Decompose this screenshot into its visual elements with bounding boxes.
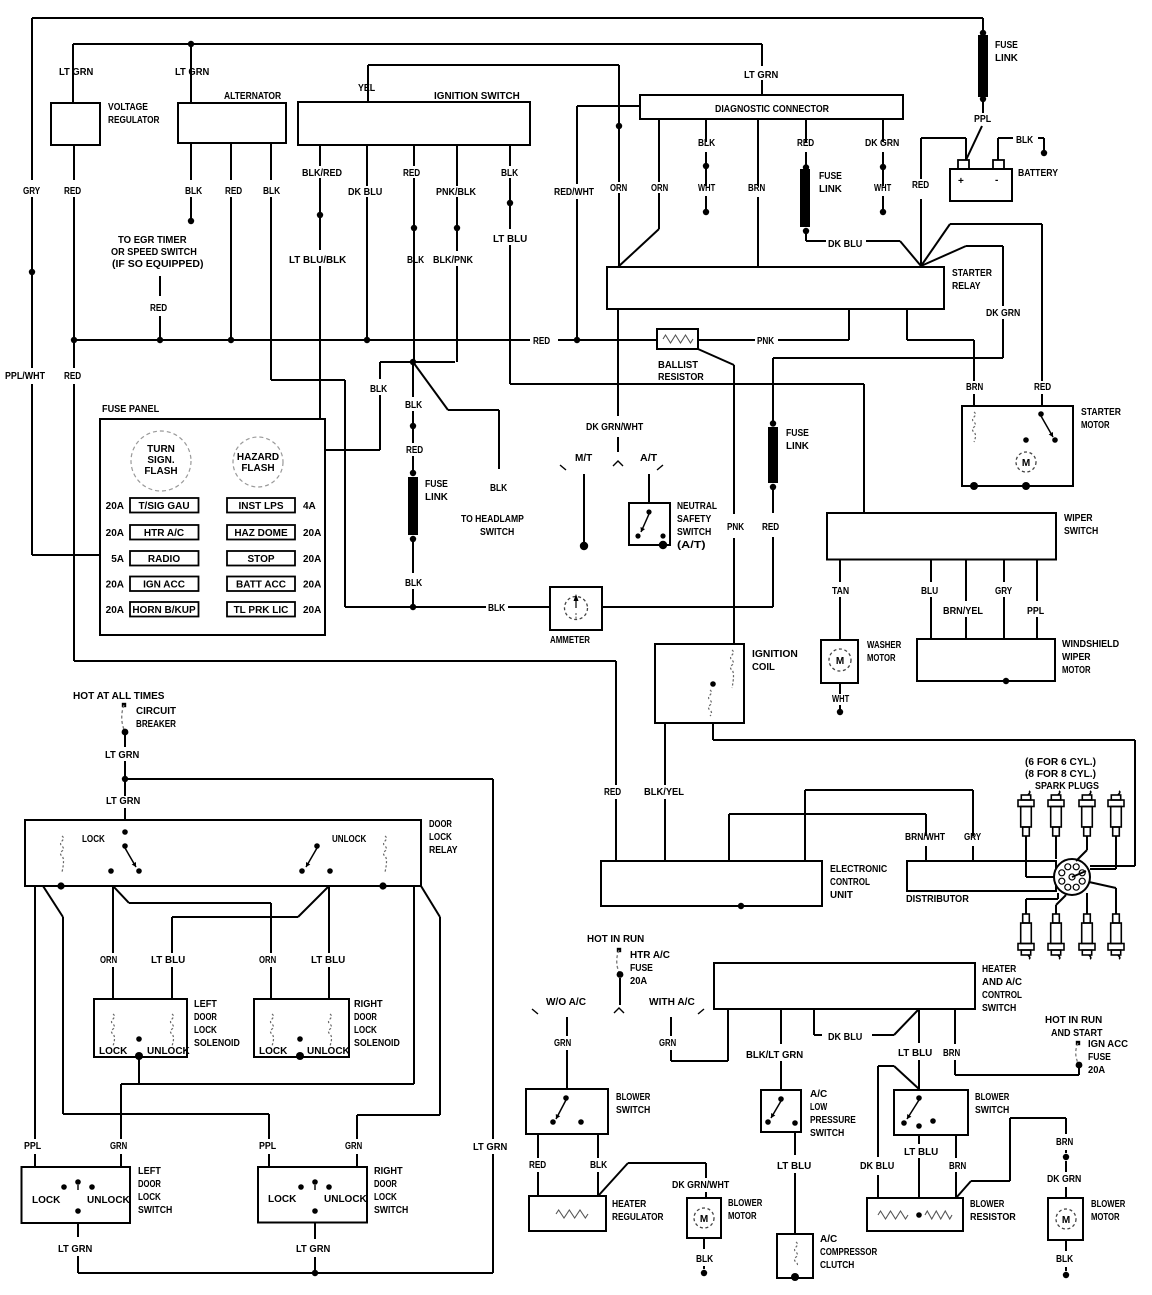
svg-text:CLUTCH: CLUTCH <box>820 1260 854 1271</box>
svg-text:LOCK: LOCK <box>32 1195 61 1206</box>
svg-text:LOCK: LOCK <box>268 1194 297 1205</box>
node LT GRN junction <box>122 776 128 782</box>
svg-text:MOTOR: MOTOR <box>1091 1212 1120 1223</box>
fuse HTR A/C 20A <box>617 948 621 952</box>
fuse TL PRK LIC <box>227 602 295 617</box>
svg-text:SPARK PLUGS: SPARK PLUGS <box>1035 781 1099 792</box>
svg-text:CONTROL: CONTROL <box>982 990 1022 1001</box>
wire DK GRN/WHT to blower motor <box>599 1163 628 1195</box>
svg-text:LOCK: LOCK <box>259 1046 288 1057</box>
svg-text:AND A/C: AND A/C <box>982 977 1022 988</box>
svg-text:PRESSURE: PRESSURE <box>810 1115 856 1126</box>
svg-text:BALLIST: BALLIST <box>658 360 698 371</box>
wire plug7 to cap <box>1086 893 1088 914</box>
wire PNK to ignition coil <box>698 349 734 365</box>
svg-text:BLK: BLK <box>1016 135 1034 146</box>
wire plug2 to cap <box>1055 836 1057 859</box>
svg-text:HOT AT ALL TIMES: HOT AT ALL TIMES <box>73 691 165 702</box>
svg-text:DOOR: DOOR <box>374 1179 397 1190</box>
svg-text:RED: RED <box>225 186 242 197</box>
wire plug4 to cap <box>1115 836 1117 869</box>
svg-text:REGULATOR: REGULATOR <box>612 1212 664 1223</box>
wire BLK/RED - LT BLU/BLK from ignition <box>319 145 321 166</box>
svg-text:M/T: M/T <box>575 453 592 464</box>
wire main RED bus y340 <box>74 339 530 341</box>
svg-text:GRY: GRY <box>23 186 40 197</box>
svg-text:RED: RED <box>150 303 167 314</box>
wire bus ammeter to fuse link F4 <box>602 606 773 608</box>
spark plug bottom x1087 <box>1084 914 1091 923</box>
wire RED fuse link F2 from diagnostic connector <box>805 119 807 142</box>
wire TAN to washer motor <box>839 560 841 583</box>
distributor box <box>907 861 1056 891</box>
svg-text:BLK/YEL: BLK/YEL <box>644 787 684 798</box>
left door lock switch box <box>22 1167 131 1223</box>
svg-text:LT GRN: LT GRN <box>59 67 93 78</box>
spark plug bottom x1056 <box>1053 914 1060 923</box>
wire RED EGR stub <box>159 276 161 296</box>
circuit breaker CB1 <box>122 703 126 707</box>
wire BLK jog to ground bus <box>380 361 413 363</box>
svg-text:T/SIG GAU: T/SIG GAU <box>138 501 189 512</box>
svg-text:WINDSHIELD: WINDSHIELD <box>1062 639 1119 650</box>
spark plug top x1026 <box>1028 791 1030 795</box>
svg-text:4A: 4A <box>303 501 316 512</box>
svg-text:20A: 20A <box>106 580 124 591</box>
node junction LT GRN/alternator <box>188 41 194 47</box>
svg-text:STARTER: STARTER <box>952 268 993 279</box>
svg-text:LOCK: LOCK <box>194 1025 218 1036</box>
svg-text:HAZARD: HAZARD <box>237 452 279 463</box>
svg-text:WHT: WHT <box>874 183 891 194</box>
svg-text:FUSE: FUSE <box>995 40 1018 51</box>
wire coil secondary to distributor cap <box>712 723 714 740</box>
fuse panel box <box>100 419 325 635</box>
svg-text:LT GRN: LT GRN <box>473 1142 507 1153</box>
wire GRY ECU to distributor <box>804 790 806 861</box>
branch caret M/T A/T <box>613 461 623 466</box>
svg-text:RED: RED <box>912 180 929 191</box>
wire BRN to IGN ACC fuse <box>954 1009 956 1044</box>
wire BLK/LT GRN to AC low pressure switch <box>780 1009 782 1044</box>
svg-text:LT BLU: LT BLU <box>904 1147 938 1158</box>
A/C low pressure switch box <box>761 1090 801 1132</box>
wire A/T to neutral safety switch <box>648 474 650 503</box>
svg-text:5A: 5A <box>111 554 124 565</box>
spark plug top x1116 <box>1118 791 1120 795</box>
wire ORN to right solenoid <box>113 886 129 903</box>
wire BLU to wiper motor <box>930 560 932 583</box>
fuse STOP <box>227 551 295 566</box>
blower motor M6 box right <box>1048 1198 1083 1240</box>
spark plug top x1056 <box>1058 791 1060 795</box>
wire LT GRN bus y44 <box>73 43 762 45</box>
svg-text:SOLENOID: SOLENOID <box>354 1038 400 1049</box>
wire DK GRN-WHT stub from diagnostic connector <box>882 119 884 142</box>
svg-text:ORN: ORN <box>610 183 627 194</box>
ignition switch box <box>298 102 530 145</box>
wire DK GRN from relay to middle fuse link <box>921 246 966 266</box>
svg-text:BLK: BLK <box>488 603 506 614</box>
wire RED/WHT from diagnostic connector <box>577 105 640 107</box>
svg-text:LT GRN: LT GRN <box>744 70 778 81</box>
svg-text:MOTOR: MOTOR <box>867 653 896 664</box>
svg-text:BRN/YEL: BRN/YEL <box>943 606 983 617</box>
wire plug6 to cap <box>1055 905 1057 914</box>
svg-text:BLK/RED: BLK/RED <box>302 168 342 179</box>
svg-text:BLOWER: BLOWER <box>970 1199 1005 1210</box>
svg-text:SOLENOID: SOLENOID <box>194 1038 240 1049</box>
svg-text:NEUTRAL: NEUTRAL <box>677 501 717 512</box>
blower switch S5 box left <box>526 1089 608 1134</box>
svg-text:IGNITION SWITCH: IGNITION SWITCH <box>434 91 520 102</box>
svg-text:LT BLU/BLK: LT BLU/BLK <box>289 255 347 266</box>
svg-text:FUSE: FUSE <box>786 428 809 439</box>
svg-text:M: M <box>836 656 844 667</box>
svg-text:BRN: BRN <box>748 183 765 194</box>
ballist resistor R1 <box>657 329 698 349</box>
wire plug3 to cap <box>1086 836 1088 850</box>
svg-text:PPL: PPL <box>974 114 991 125</box>
svg-text:LT BLU: LT BLU <box>151 955 185 966</box>
svg-text:M: M <box>1022 458 1030 469</box>
svg-text:WHT: WHT <box>832 694 849 705</box>
wire LT GRN loop right <box>125 778 493 780</box>
wire GRN WITH A/C to heater control <box>670 1017 672 1036</box>
svg-text:RADIO: RADIO <box>148 554 180 565</box>
svg-text:IGNITION: IGNITION <box>752 649 798 660</box>
svg-text:GRY: GRY <box>995 586 1012 597</box>
blower switch S6 box right <box>894 1090 968 1135</box>
wire LT BLU to compressor clutch <box>794 1132 796 1155</box>
wire RED down to ECU <box>615 661 617 785</box>
svg-text:MOTOR: MOTOR <box>1081 420 1110 431</box>
wire PPL right path from relay <box>43 886 63 917</box>
battery BT1 <box>950 169 1012 201</box>
svg-text:FUSE: FUSE <box>630 963 653 974</box>
svg-text:PNK/BLK: PNK/BLK <box>436 187 477 198</box>
svg-text:RIGHT: RIGHT <box>354 999 383 1010</box>
fuse HTR A/C <box>130 525 199 540</box>
svg-text:HTR A/C: HTR A/C <box>630 950 670 961</box>
wire BRN from diagnostic connector to relay <box>757 119 759 186</box>
svg-text:20A: 20A <box>106 605 124 616</box>
hazard flasher circle <box>233 437 283 487</box>
svg-text:20A: 20A <box>630 976 647 987</box>
svg-text:VOLTAGE: VOLTAGE <box>108 102 148 113</box>
svg-text:20A: 20A <box>106 528 124 539</box>
fuse HAZ DOME <box>227 525 295 540</box>
fuse HORN B/KUP <box>130 602 199 617</box>
wire fuse to W/O-WITH branch <box>619 978 621 1005</box>
svg-text:COIL: COIL <box>752 662 775 673</box>
svg-text:BLK: BLK <box>185 186 203 197</box>
svg-text:MOTOR: MOTOR <box>728 1211 757 1222</box>
svg-text:RIGHT: RIGHT <box>374 1166 403 1177</box>
svg-text:LEFT: LEFT <box>194 999 217 1010</box>
svg-text:BRN/WHT: BRN/WHT <box>905 832 945 843</box>
svg-text:HTR A/C: HTR A/C <box>144 528 184 539</box>
blower resistor R2 box <box>867 1198 963 1231</box>
spark plug bottom x1026 <box>1023 914 1030 923</box>
svg-text:LT GRN: LT GRN <box>106 796 140 807</box>
svg-text:HORN B/KUP: HORN B/KUP <box>132 605 196 616</box>
wire PPL left from relay <box>34 886 36 1139</box>
fuse link F2 <box>800 169 810 227</box>
distributor cap <box>1054 859 1090 895</box>
svg-text:UNLOCK: UNLOCK <box>147 1046 191 1057</box>
svg-text:20A: 20A <box>303 580 321 591</box>
wire RED from ignition switch <box>413 145 415 166</box>
fuse link F1 top right <box>982 18 984 31</box>
svg-text:AND START: AND START <box>1051 1028 1103 1039</box>
svg-text:RED: RED <box>64 186 81 197</box>
right door lock switch box <box>258 1167 367 1223</box>
svg-text:LT BLU: LT BLU <box>311 955 345 966</box>
wire ORN to left solenoid <box>112 886 114 953</box>
wire BLK stub below alternator <box>190 143 192 180</box>
svg-text:SWITCH: SWITCH <box>480 527 514 538</box>
wire DK BLU from fuse link to relay <box>805 233 807 241</box>
wire RED below voltage regulator <box>73 145 75 180</box>
wire plug5 to cap <box>1025 899 1027 914</box>
svg-text:MOTOR: MOTOR <box>1062 665 1091 676</box>
svg-text:LT BLU: LT BLU <box>898 1048 932 1059</box>
svg-text:BLK: BLK <box>1056 1254 1074 1265</box>
svg-text:GRN: GRN <box>554 1038 571 1049</box>
svg-text:LOCK: LOCK <box>429 832 453 843</box>
svg-text:FLASH: FLASH <box>144 466 177 477</box>
svg-text:HOT IN RUN: HOT IN RUN <box>587 934 644 945</box>
diagnostic connector box <box>640 95 903 119</box>
svg-text:PPL: PPL <box>259 1141 276 1152</box>
wire GRN right path from relay corner <box>421 886 440 917</box>
wire GRN W/O A/C to blower switch <box>566 1017 568 1036</box>
svg-text:BRN: BRN <box>1056 1137 1073 1148</box>
svg-text:LT GRN: LT GRN <box>296 1244 330 1255</box>
wire LT BLU to blower switch right <box>918 1009 920 1043</box>
svg-text:UNLOCK: UNLOCK <box>87 1195 131 1206</box>
svg-text:DK GRN: DK GRN <box>1047 1174 1081 1185</box>
starter relay K1 box <box>607 267 944 309</box>
fuse RADIO <box>130 551 199 566</box>
svg-text:FUSE PANEL: FUSE PANEL <box>102 404 159 415</box>
wire LT GRN into alternator <box>190 44 192 103</box>
svg-text:BLK: BLK <box>405 578 423 589</box>
wire M/T stub <box>583 474 585 542</box>
svg-text:20A: 20A <box>303 528 321 539</box>
wire LT GRN into door lock relay <box>124 779 126 796</box>
spark plug bottom x1116 <box>1113 914 1120 923</box>
svg-text:BLK/PNK: BLK/PNK <box>433 255 474 266</box>
wire RED to starter motor <box>921 224 950 266</box>
svg-text:TURN: TURN <box>147 444 175 455</box>
fuse BATT ACC <box>227 577 295 592</box>
fuse INST LPS <box>227 498 295 513</box>
svg-text:DOOR: DOOR <box>194 1012 217 1023</box>
svg-text:SWITCH: SWITCH <box>982 1003 1016 1014</box>
svg-text:LINK: LINK <box>425 492 449 503</box>
svg-text:DOOR: DOOR <box>429 819 452 830</box>
svg-text:UNLOCK: UNLOCK <box>307 1046 351 1057</box>
svg-text:DK GRN/WHT: DK GRN/WHT <box>586 422 643 433</box>
wire plug1 to cap <box>1025 836 1027 877</box>
svg-text:BLOWER: BLOWER <box>616 1092 651 1103</box>
wire RED long left vertical to ECU <box>73 340 75 368</box>
svg-text:A/C: A/C <box>810 1089 827 1100</box>
wire BRN resistor to right blower motor <box>956 1181 971 1198</box>
relay K2 lock contacts <box>122 829 128 835</box>
svg-text:SWITCH: SWITCH <box>616 1105 650 1116</box>
fuse IGN ACC 20A <box>1076 1041 1080 1045</box>
windshield wiper motor M4 box <box>917 639 1055 681</box>
svg-text:GRN: GRN <box>659 1038 676 1049</box>
svg-text:ORN: ORN <box>651 183 668 194</box>
node bus dots <box>71 337 77 343</box>
A/C compressor clutch L1 box <box>777 1234 813 1278</box>
wire BRN/YEL to wiper motor <box>965 560 967 602</box>
wire BLK blower switch down <box>597 1134 599 1158</box>
svg-text:FUSE: FUSE <box>1088 1052 1111 1063</box>
svg-text:FUSE: FUSE <box>425 479 448 490</box>
svg-text:HOT IN RUN: HOT IN RUN <box>1045 1015 1102 1026</box>
svg-text:PPL: PPL <box>1027 606 1044 617</box>
fuse T/SIG GAU <box>130 498 199 513</box>
svg-text:UNLOCK: UNLOCK <box>332 834 367 845</box>
svg-text:LOCK: LOCK <box>99 1046 128 1057</box>
ammeter M1 <box>550 587 602 630</box>
svg-text:LT GRN: LT GRN <box>105 750 139 761</box>
svg-text:BATT ACC: BATT ACC <box>236 580 286 591</box>
svg-text:LINK: LINK <box>819 184 843 195</box>
svg-text:DK GRN: DK GRN <box>986 308 1020 319</box>
svg-text:RED: RED <box>1034 382 1051 393</box>
heater regulator box <box>529 1196 606 1231</box>
svg-text:BLK: BLK <box>590 1160 608 1171</box>
svg-text:BLK: BLK <box>263 186 281 197</box>
svg-text:TL PRK LIC: TL PRK LIC <box>234 605 289 616</box>
svg-text:RED/WHT: RED/WHT <box>554 187 594 198</box>
svg-text:DOOR: DOOR <box>354 1012 377 1023</box>
svg-text:LT GRN: LT GRN <box>175 67 209 78</box>
svg-text:RED: RED <box>529 1160 546 1171</box>
svg-text:ALTERNATOR: ALTERNATOR <box>224 91 282 102</box>
left door lock solenoid box <box>94 999 187 1057</box>
svg-text:RESISTOR: RESISTOR <box>658 372 704 383</box>
svg-text:BLK/LT GRN: BLK/LT GRN <box>746 1050 803 1061</box>
svg-text:SWITCH: SWITCH <box>975 1105 1009 1116</box>
wire relay to GRN left loop <box>413 886 415 1084</box>
wire LT GRN below right switch <box>314 1223 316 1240</box>
wire LT BLU to right solenoid <box>328 886 330 953</box>
wire BLK from battery negative <box>997 138 999 160</box>
svg-text:RELAY: RELAY <box>429 845 458 856</box>
wire LT GRN drop to voltage regulator <box>72 44 74 103</box>
svg-text:SWITCH: SWITCH <box>1064 526 1098 537</box>
wire GRY to wiper motor <box>1003 560 1005 583</box>
svg-text:BATTERY: BATTERY <box>1018 168 1058 179</box>
svg-text:LT BLU: LT BLU <box>777 1161 811 1172</box>
svg-text:BLK: BLK <box>501 168 519 179</box>
svg-text:W/O A/C: W/O A/C <box>546 997 586 1008</box>
wire BLK ground bus to ammeter <box>345 606 486 608</box>
svg-text:LT BLU: LT BLU <box>493 234 527 245</box>
svg-text:BLK: BLK <box>370 384 388 395</box>
svg-text:UNLOCK: UNLOCK <box>324 1194 368 1205</box>
svg-text:TO EGR TIMER: TO EGR TIMER <box>118 235 187 246</box>
fuse IGN ACC <box>130 577 199 592</box>
wire PPL diagonal to battery positive <box>966 126 982 160</box>
svg-text:IGN ACC: IGN ACC <box>143 580 185 591</box>
wire top border bus <box>32 17 983 19</box>
svg-text:STARTER: STARTER <box>1081 407 1122 418</box>
svg-text:WHT: WHT <box>698 183 715 194</box>
wire DK GRN to blower motor right <box>1065 1161 1067 1172</box>
svg-text:M: M <box>1062 1215 1070 1226</box>
svg-text:COMPRESSOR: COMPRESSOR <box>820 1247 878 1258</box>
svg-text:STOP: STOP <box>247 554 274 565</box>
starter motor M2 box <box>962 406 1073 486</box>
wire BRN/WHT ECU to distributor <box>728 814 730 861</box>
svg-text:LOCK: LOCK <box>82 834 106 845</box>
svg-text:20A: 20A <box>106 501 124 512</box>
wire YEL feed <box>367 65 369 102</box>
wire BLK alternator ground path <box>270 143 272 180</box>
wire BLK below blower motor <box>703 1238 705 1249</box>
svg-text:OR SPEED SWITCH: OR SPEED SWITCH <box>111 247 197 258</box>
svg-text:BLOWER: BLOWER <box>728 1198 763 1209</box>
svg-text:BLU: BLU <box>921 586 938 597</box>
wire DK GRN/WHT neutral safety feed <box>617 309 619 416</box>
wire LT GRN to diagnostic connector <box>761 44 763 66</box>
svg-text:BLK: BLK <box>407 255 425 266</box>
fuse link F3 middle-left <box>408 477 418 535</box>
svg-text:RED: RED <box>533 336 550 347</box>
svg-text:BRN: BRN <box>943 1048 960 1059</box>
relay K2 unlock contacts <box>314 843 320 849</box>
wire DK BLU drop to blower resistor <box>894 1066 919 1089</box>
svg-text:RED: RED <box>64 371 81 382</box>
svg-text:(IF SO EQUIPPED): (IF SO EQUIPPED) <box>112 259 204 270</box>
svg-text:PNK: PNK <box>757 336 775 347</box>
svg-text:LINK: LINK <box>786 441 810 452</box>
svg-text:GRY: GRY <box>964 832 981 843</box>
svg-text:ORN: ORN <box>100 955 117 966</box>
svg-text:DOOR: DOOR <box>138 1179 161 1190</box>
washer motor M3 <box>821 640 858 683</box>
relay K2 coils <box>61 836 64 872</box>
svg-text:REGULATOR: REGULATOR <box>108 115 160 126</box>
svg-text:CIRCUIT: CIRCUIT <box>136 706 176 717</box>
svg-text:+: + <box>958 176 964 187</box>
svg-text:SIGN.: SIGN. <box>147 455 174 466</box>
svg-text:DK BLU: DK BLU <box>348 187 382 198</box>
svg-text:SWITCH: SWITCH <box>374 1205 408 1216</box>
blower motor M5 box <box>687 1198 721 1238</box>
svg-text:20A: 20A <box>303 605 321 616</box>
svg-text:RED: RED <box>604 787 621 798</box>
svg-text:20A: 20A <box>1088 1065 1105 1076</box>
wire PNK relay to ballist resistor <box>848 309 850 340</box>
wire RED from battery positive to starter relay <box>965 138 967 160</box>
svg-text:DK GRN: DK GRN <box>865 138 899 149</box>
svg-text:WITH A/C: WITH A/C <box>649 997 695 1008</box>
svg-text:A/C: A/C <box>820 1234 837 1245</box>
heater and A/C control switch box <box>714 963 975 1009</box>
fuse link F4 DK GRN to RED <box>772 358 774 421</box>
svg-text:SWITCH: SWITCH <box>677 527 711 538</box>
wire LT BLU to left solenoid crossing <box>298 886 329 917</box>
